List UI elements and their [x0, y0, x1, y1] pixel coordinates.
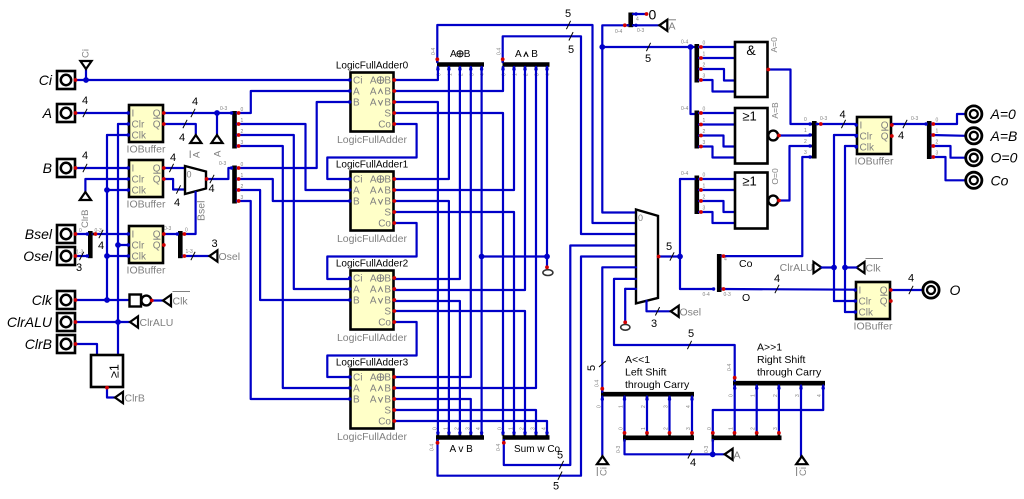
wire A or B bus to mux in4 — [438, 257, 637, 493]
svg-text:B: B — [353, 395, 360, 406]
svg-text:3: 3 — [773, 427, 779, 430]
svg-text:≥1: ≥1 — [742, 173, 756, 188]
svg-text:3: 3 — [686, 427, 692, 430]
wire O register Q to port O — [892, 273, 922, 295]
svg-text:Co: Co — [991, 172, 1009, 188]
svg-text:Ci: Ci — [599, 467, 610, 476]
svg-text:A: A — [42, 105, 52, 121]
svg-text:2: 2 — [751, 427, 757, 430]
svg-text:A: A — [370, 175, 377, 186]
splitter Bsel/Osel out — [164, 226, 193, 258]
svg-text:0-4: 0-4 — [595, 380, 601, 387]
svg-text:A: A — [370, 186, 377, 197]
svg-text:I: I — [859, 286, 862, 297]
input port Bsel — [25, 225, 75, 243]
wire B register Q to mux — [164, 152, 185, 172]
svg-text:B: B — [384, 175, 391, 186]
wire ClrB port to OR gate — [76, 344, 98, 355]
svg-text:LogicFullAdder: LogicFullAdder — [337, 431, 408, 443]
svg-text:4: 4 — [840, 109, 846, 121]
wire Co to status bit3 — [722, 157, 811, 270]
svg-text:0: 0 — [703, 41, 706, 47]
svg-text:4: 4 — [170, 152, 176, 164]
svg-text:A: A — [353, 285, 360, 296]
svg-text:ClrB: ClrB — [125, 393, 145, 405]
svg-text:Osel: Osel — [680, 307, 702, 319]
IOBuffer U2 (B register) — [127, 160, 166, 211]
svg-text:B: B — [384, 76, 391, 87]
svg-text:B: B — [353, 98, 360, 109]
svg-text:A=0: A=0 — [769, 37, 779, 53]
svg-text:0-3: 0-3 — [704, 446, 710, 453]
svg-text:5: 5 — [568, 44, 574, 56]
wire right shift bus to mux in6 — [614, 279, 735, 381]
wire to port A=B — [932, 134, 966, 137]
svg-text:A>>1: A>>1 — [757, 342, 782, 354]
svg-text:2: 2 — [703, 63, 706, 69]
svg-text:A: A — [353, 384, 360, 395]
wire left shift bus to mux in5 — [586, 267, 636, 392]
output port O=0 — [966, 150, 1018, 166]
svg-text:A: A — [370, 274, 377, 285]
svg-text:ClrALU: ClrALU — [140, 317, 174, 329]
svg-text:B: B — [531, 49, 538, 60]
svg-text:Co: Co — [378, 219, 391, 230]
wire O to output IOBuffer — [722, 273, 857, 304]
svg-text:0: 0 — [703, 173, 706, 179]
svg-text:Bsel: Bsel — [25, 226, 53, 242]
svg-text:4: 4 — [82, 150, 88, 162]
svg-text:Co: Co — [378, 417, 391, 428]
svg-text:A: A — [370, 87, 377, 98]
wire Sum bus to mux in3 — [504, 246, 636, 470]
svg-text:A: A — [370, 98, 377, 109]
svg-text:0-4: 0-4 — [681, 106, 688, 112]
wire inverter to nClk tunnel — [152, 299, 163, 301]
wire and bit3 — [394, 67, 536, 388]
svg-text:I: I — [132, 164, 135, 175]
wire carry LFA2.Co to LFA3.Ci — [327, 322, 416, 377]
multiplexer M1 (B / nB, Bsel) — [185, 166, 206, 194]
svg-text:0-3: 0-3 — [616, 446, 622, 453]
svg-text:4: 4 — [774, 273, 780, 285]
svg-text:0-4: 0-4 — [727, 364, 733, 371]
svg-text:IOBuffer: IOBuffer — [127, 144, 166, 156]
svg-text:4: 4 — [898, 130, 904, 142]
combiner left shift result — [595, 380, 695, 408]
splitter A=B gate input — [681, 106, 706, 149]
svg-text:0-3: 0-3 — [724, 292, 731, 298]
label A>>1 Right Shift — [757, 342, 822, 379]
svg-text:Left Shift: Left Shift — [625, 367, 667, 379]
svg-text:A: A — [450, 49, 457, 60]
output port A=B — [966, 128, 1018, 144]
svg-text:3: 3 — [936, 151, 939, 157]
tunnel A (drive) — [211, 113, 223, 157]
splitter const0+nA merge — [615, 13, 644, 36]
svg-text:2: 2 — [703, 129, 706, 135]
input port Clk — [32, 291, 75, 309]
svg-text:B: B — [43, 160, 52, 176]
svg-text:0-3: 0-3 — [219, 161, 226, 167]
svg-text:Co: Co — [378, 318, 391, 329]
svg-text:IOBuffer: IOBuffer — [854, 321, 893, 333]
and-gate A=0 — [735, 37, 779, 97]
wire xor bit0 — [394, 67, 438, 80]
tunnel ClrB (B register clear) — [80, 179, 129, 228]
svg-text:Clk: Clk — [132, 252, 147, 263]
svg-text:4: 4 — [636, 17, 639, 23]
wire Osel 1-3 to tunnel — [183, 238, 218, 260]
wire A register Q bus — [164, 96, 233, 117]
svg-text:5: 5 — [553, 481, 559, 493]
svg-text:3: 3 — [76, 262, 82, 274]
tunnel Ci (right shift) — [796, 456, 809, 476]
svg-text:0-3: 0-3 — [637, 28, 644, 34]
wire sum bit1 — [394, 212, 514, 434]
wire M1 output to B splitter — [207, 161, 233, 195]
svg-text:2: 2 — [664, 427, 670, 430]
svg-text:0: 0 — [936, 118, 939, 124]
wire notA bus net — [602, 25, 694, 212]
wire left shift carry in — [601, 397, 603, 457]
svg-text:3: 3 — [703, 140, 706, 146]
svg-text:B: B — [384, 285, 391, 296]
svg-text:5: 5 — [688, 328, 694, 340]
svg-text:Clk: Clk — [859, 308, 874, 319]
svg-text:0: 0 — [804, 117, 807, 123]
svg-text:A: A — [370, 395, 377, 406]
svg-text:1: 1 — [936, 129, 939, 135]
svg-text:Ci: Ci — [353, 274, 362, 285]
not-connected NC1 — [543, 270, 553, 276]
LogicFullAdder1 U5 — [336, 160, 409, 246]
tunnel ClrB (output) — [115, 392, 145, 405]
svg-text:4: 4 — [82, 95, 88, 107]
wire to port Co — [932, 157, 966, 180]
tunnel Osel (drive) — [209, 250, 240, 263]
svg-text:LogicFullAdder: LogicFullAdder — [337, 233, 408, 245]
wire ClrALU to right Clr pins — [834, 135, 857, 301]
svg-text:B: B — [384, 98, 391, 109]
wire status bus to IOBuffer — [817, 109, 858, 128]
svg-text:0: 0 — [707, 427, 713, 430]
svg-text:LogicFullAdder: LogicFullAdder — [337, 332, 408, 344]
svg-text:3: 3 — [703, 206, 706, 212]
wire O=0 to status bit2 — [779, 146, 810, 201]
svg-text:B: B — [384, 373, 391, 384]
wire Osel port to splitter — [76, 250, 89, 275]
svg-text:0-3: 0-3 — [164, 226, 171, 232]
svg-text:4: 4 — [908, 273, 914, 285]
svg-text:5: 5 — [666, 241, 672, 253]
svg-text:4: 4 — [179, 132, 185, 144]
svg-text:B: B — [464, 49, 471, 60]
svg-text:Q: Q — [153, 175, 161, 186]
nor-gate O=0 — [735, 168, 780, 228]
nor-gate A=B — [735, 102, 780, 164]
tunnel Osel (read) — [671, 306, 701, 319]
svg-text:B: B — [384, 395, 391, 406]
svg-text:Q: Q — [153, 241, 161, 252]
input port A — [42, 104, 75, 122]
input port B — [43, 159, 75, 177]
svg-text:O: O — [950, 282, 961, 298]
svg-text:5: 5 — [557, 450, 563, 462]
svg-text:Ci: Ci — [353, 373, 362, 384]
wire final carry to sum bit4 — [394, 421, 547, 434]
combiner A and B (5 bit) — [497, 48, 552, 76]
svg-text:0-4: 0-4 — [681, 40, 688, 46]
svg-text:0-4: 0-4 — [431, 48, 437, 55]
output port Co — [966, 172, 1009, 188]
wire A port to IOBuffer — [76, 95, 130, 117]
wire sum bit3 — [394, 410, 536, 434]
wire A bit3 to LFA3.A — [237, 146, 351, 388]
splitter A=0 gate input — [681, 40, 706, 83]
svg-text:A: A — [353, 186, 360, 197]
svg-text:I: I — [132, 230, 135, 241]
svg-text:LogicFullAdder2: LogicFullAdder2 — [336, 259, 409, 270]
svg-text:LogicFullAdder3: LogicFullAdder3 — [336, 358, 409, 369]
input port ClrB — [25, 335, 75, 353]
svg-text:≥1: ≥1 — [742, 108, 756, 123]
IOBuffer U3 (Bsel/Osel register) — [127, 226, 166, 277]
wire B bit2 to LFA2.B — [237, 190, 351, 300]
svg-text:Clk: Clk — [866, 263, 882, 275]
wire A bit2 to LFA2.A — [237, 135, 351, 289]
combiner status bits — [804, 116, 827, 159]
svg-text:B: B — [384, 384, 391, 395]
svg-text:Clr: Clr — [859, 297, 872, 308]
svg-text:4: 4 — [98, 240, 104, 252]
wire status Q to splitter — [892, 116, 927, 142]
wire B bit0 to LFA0.B — [237, 102, 351, 168]
svg-text:Ci: Ci — [353, 175, 362, 186]
svg-text:2: 2 — [804, 139, 807, 145]
svg-text:1: 1 — [641, 427, 647, 430]
svg-text:0-4: 0-4 — [430, 444, 436, 451]
wire xor bit1 — [394, 67, 449, 179]
svg-text:4: 4 — [192, 96, 198, 108]
svg-text:Osel: Osel — [23, 248, 53, 264]
svg-text:S: S — [384, 109, 391, 120]
input port Osel — [23, 247, 75, 265]
svg-text:0-4: 0-4 — [496, 444, 502, 451]
svg-text:O=0: O=0 — [770, 168, 780, 185]
wire B register nQ to mux — [164, 179, 185, 209]
svg-text:IOBuffer: IOBuffer — [855, 156, 894, 168]
svg-text:ClrB: ClrB — [25, 336, 52, 352]
tunnel nClk (right) — [845, 259, 883, 275]
svg-text:Clr: Clr — [860, 132, 873, 143]
output port O — [923, 282, 961, 298]
wire and bit1 — [394, 67, 514, 190]
label A<<1 Left Shift — [625, 354, 690, 391]
wire xor bit3 — [394, 67, 471, 377]
combiner A xor B (5 bit) — [431, 48, 486, 76]
wire Bsel port to splitter — [76, 233, 89, 235]
svg-text:ClrALU: ClrALU — [7, 314, 53, 330]
svg-text:Ci: Ci — [353, 76, 362, 87]
svg-text:1: 1 — [804, 128, 807, 134]
wires left shift bit connectors — [625, 397, 693, 435]
not-connected NC2 (mux in7) — [621, 289, 636, 330]
input port Ci — [39, 71, 75, 89]
svg-text:I: I — [132, 109, 135, 120]
svg-text:A: A — [370, 296, 377, 307]
svg-text:3: 3 — [651, 318, 657, 330]
svg-text:B: B — [353, 296, 360, 307]
svg-text:O=0: O=0 — [991, 150, 1018, 166]
svg-text:A: A — [370, 384, 377, 395]
svg-text:≥1: ≥1 — [108, 364, 122, 378]
svg-text:Clr: Clr — [132, 241, 145, 252]
svg-text:0-4: 0-4 — [615, 29, 622, 35]
svg-text:S: S — [384, 307, 391, 318]
splitter O=0 gate input — [681, 171, 706, 214]
svg-text:Q: Q — [880, 297, 888, 308]
IOBuffer U9 (O register) — [854, 282, 893, 333]
svg-text:IOBuffer: IOBuffer — [127, 199, 166, 211]
tunnel ClrALU (right) — [780, 262, 834, 274]
svg-text:Q: Q — [881, 132, 889, 143]
splitter status to ports — [929, 118, 938, 160]
svg-text:Clk: Clk — [132, 131, 147, 142]
svg-text:A: A — [370, 373, 377, 384]
svg-text:A: A — [370, 76, 377, 87]
wire carry LFA0.Co to LFA1.Ci — [327, 124, 416, 179]
wire A bit0 to LFA0.A — [237, 91, 351, 113]
svg-text:Q: Q — [153, 120, 161, 131]
svg-text:IOBuffer: IOBuffer — [127, 265, 166, 277]
combiner Sum w Co (5 bit) — [496, 427, 561, 455]
wire sum bit2 — [394, 311, 525, 434]
svg-text:B: B — [353, 197, 360, 208]
wire A=B to status bit1 — [779, 134, 810, 136]
svg-text:LogicFullAdder1: LogicFullAdder1 — [336, 160, 409, 171]
combiner A or B (5 bit) — [430, 427, 485, 455]
wire or/xor bit4 tie — [482, 67, 547, 434]
svg-text:0-3: 0-3 — [220, 106, 227, 112]
svg-text:Ci: Ci — [798, 467, 809, 476]
svg-text:B: B — [384, 87, 391, 98]
tunnel Ci (top) — [80, 49, 91, 80]
svg-text:ClrALU: ClrALU — [780, 262, 814, 274]
wire A register nQ bus — [164, 120, 196, 144]
wire right shift A in / node A — [713, 440, 725, 454]
svg-text:0: 0 — [638, 213, 643, 223]
wire or bit2 — [394, 301, 460, 434]
svg-text:0: 0 — [703, 107, 706, 113]
IOBuffer U1 (A register) — [127, 105, 166, 156]
svg-text:5: 5 — [565, 8, 571, 20]
tunnel Ci (left shift) — [597, 456, 610, 476]
wire A=B splitter pins — [699, 113, 735, 158]
wire A=0 splitter pins — [699, 47, 735, 92]
wire B bit1 to LFA1.B — [237, 179, 351, 201]
svg-text:Ci: Ci — [39, 72, 53, 88]
wire U3 Q to splitter — [164, 233, 178, 235]
wire OR output to ClrB tunnel — [107, 388, 115, 398]
svg-text:Osel: Osel — [219, 251, 241, 263]
svg-text:A: A — [515, 49, 522, 60]
svg-text:Bsel: Bsel — [196, 201, 208, 221]
svg-text:Sum w Co: Sum w Co — [514, 444, 561, 455]
wire and bit0 — [394, 67, 503, 91]
wire nClk to right Clk pins — [845, 146, 857, 312]
svg-text:3: 3 — [703, 74, 706, 80]
pin and junction dots overlay — [74, 12, 936, 457]
LogicFullAdder3 U7 — [336, 358, 409, 444]
inverter (Clk to nClk) — [130, 295, 152, 307]
svg-text:0-3: 0-3 — [911, 116, 918, 122]
LogicFullAdder2 U6 — [336, 259, 409, 345]
splitter A bus 0-3 — [220, 106, 244, 149]
wire or bit3 — [394, 399, 471, 434]
wire B port to IOBuffer — [76, 150, 130, 172]
wire M1 select Bsel — [184, 192, 207, 234]
tunnel nA (drive) — [190, 135, 202, 158]
svg-text:A: A — [734, 449, 741, 461]
wire left shift A in — [625, 440, 713, 469]
svg-text:A=0: A=0 — [990, 106, 1017, 122]
wire B bit3 to LFA3.B — [237, 201, 351, 399]
wire A bit1 to LFA1.A — [237, 124, 351, 190]
svg-text:S: S — [384, 406, 391, 417]
wire ClrALU distribution net — [76, 124, 131, 355]
LogicFullAdder0 U4 — [336, 61, 409, 147]
wire M2 select Osel — [647, 301, 671, 330]
svg-text:Clk: Clk — [173, 296, 189, 308]
svg-text:B: B — [384, 274, 391, 285]
svg-text:4: 4 — [690, 457, 696, 469]
svg-text:Clk: Clk — [860, 143, 875, 154]
svg-text:LogicFullAdder: LogicFullAdder — [337, 134, 408, 146]
svg-text:I: I — [860, 121, 863, 132]
svg-text:&: & — [746, 42, 756, 58]
IOBuffer U8 (status register) — [855, 117, 894, 168]
svg-text:1: 1 — [703, 52, 706, 58]
wire Ci net — [76, 79, 351, 81]
svg-text:A: A — [213, 150, 224, 157]
svg-text:B: B — [384, 186, 391, 197]
svg-text:5: 5 — [645, 53, 651, 65]
svg-text:O: O — [742, 292, 750, 304]
wire to port A=0 — [932, 114, 966, 124]
svg-text:0-3: 0-3 — [820, 116, 827, 122]
input port ClrALU — [7, 313, 75, 331]
or-gate >=1 (ClrB | ClrALU) — [91, 355, 123, 387]
wire sum bit0 — [394, 113, 503, 434]
svg-text:5: 5 — [586, 365, 598, 371]
svg-text:LogicFullAdder0: LogicFullAdder0 — [336, 61, 409, 72]
svg-text:Clk: Clk — [32, 292, 53, 308]
wire or bit1 — [394, 201, 449, 434]
svg-text:A v B: A v B — [450, 444, 474, 455]
svg-text:Ci: Ci — [81, 49, 92, 58]
wire O=0 splitter pins — [699, 179, 735, 223]
svg-text:Clk: Clk — [132, 186, 147, 197]
svg-text:4: 4 — [174, 197, 180, 209]
svg-text:0: 0 — [187, 170, 192, 180]
svg-text:1-3: 1-3 — [76, 250, 83, 256]
wire xor bit2 — [394, 67, 460, 279]
svg-text:B: B — [384, 296, 391, 307]
svg-text:A<<1: A<<1 — [625, 354, 650, 366]
wires right shift bit connectors — [713, 386, 823, 457]
svg-text:through Carry: through Carry — [757, 367, 822, 379]
